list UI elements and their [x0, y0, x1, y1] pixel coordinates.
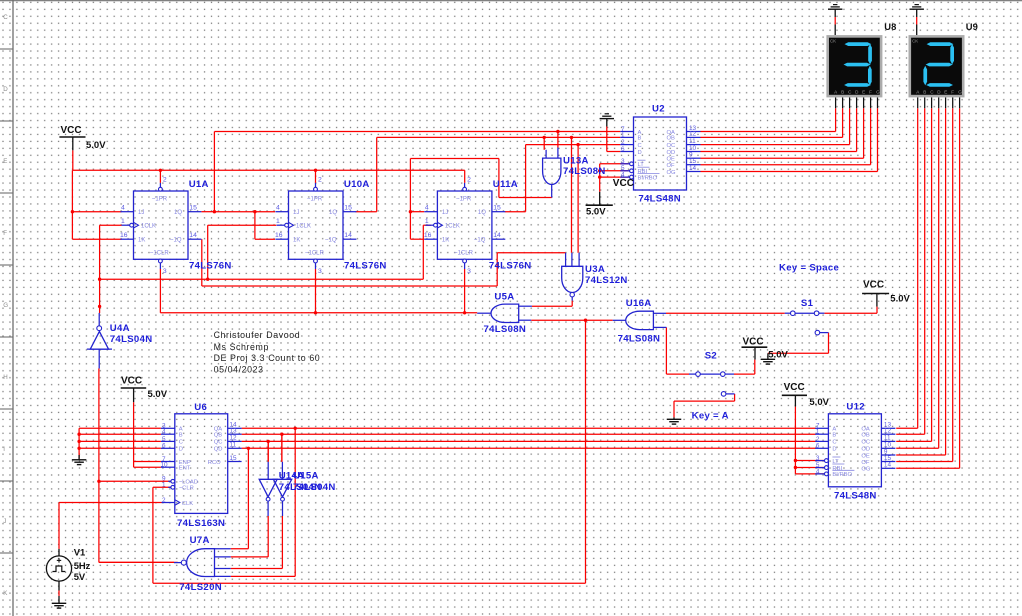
wire: U7A output to U4A input and U6 ~LOAD [99, 369, 178, 563]
svg-text:Ms Schremp: Ms Schremp [214, 342, 269, 352]
svg-text:2: 2 [467, 177, 471, 184]
U14A/U15A overlapping part labels 74LS04N [279, 482, 336, 493]
svg-text:E: E [944, 89, 947, 94]
svg-text:QD: QD [214, 447, 223, 453]
svg-text:F: F [869, 89, 872, 94]
svg-text:D: D [3, 86, 8, 93]
svg-text:1: 1 [162, 482, 166, 489]
svg-text:VCC: VCC [863, 280, 884, 291]
svg-text:16: 16 [275, 232, 283, 239]
svg-text:1Q: 1Q [329, 210, 337, 216]
junction QD tap to U7A [247, 447, 250, 450]
svg-text:I: I [3, 446, 5, 453]
svg-text:2: 2 [163, 177, 167, 184]
wire: U6 QA-QD bus to U12 inputs (tens BCD) [242, 428, 816, 576]
junction QA tap to U7A [294, 427, 297, 430]
svg-text:BI/RBO: BI/RBO [638, 175, 658, 181]
U12 pin numbers [816, 422, 892, 476]
svg-text:Key = Space: Key = Space [779, 262, 839, 273]
wire: VCC rail to U1A J/K and preset line (net VCC1) [72, 150, 464, 239]
U14A and U15A overlapping reference labels [279, 470, 319, 481]
svg-text:OC: OC [861, 440, 870, 446]
seven-segment display U9 (showing 2) [909, 35, 965, 97]
svg-text:1: 1 [276, 218, 280, 225]
svg-text:F: F [951, 89, 954, 94]
U9 reference label [966, 21, 978, 32]
svg-text:15: 15 [189, 205, 197, 212]
svg-text:C: C [3, 14, 8, 21]
svg-text:OC: OC [667, 143, 676, 149]
switch S2 (Key = A) SPDT [689, 372, 735, 396]
svg-text:B: B [923, 89, 926, 94]
U6 part label 74LS163N [177, 518, 225, 529]
U8 reference label [884, 21, 896, 32]
VCC symbol for S1 [862, 280, 910, 307]
svg-text:~CLR: ~CLR [179, 486, 194, 492]
svg-text:15: 15 [344, 205, 352, 212]
junction on preset line above U1A [159, 169, 162, 172]
svg-text:1J: 1J [293, 210, 299, 216]
junction feeding U3A right input [576, 143, 579, 146]
svg-text:5Hz: 5Hz [74, 560, 91, 571]
flip-flop U11A 74LS76N [424, 183, 505, 269]
wire: U12 segment outputs OA-OG to display U9 [896, 108, 959, 468]
svg-text:U5A: U5A [494, 292, 514, 303]
svg-text:5.0V: 5.0V [809, 397, 829, 408]
svg-text:74LS48N: 74LS48N [834, 491, 877, 502]
sheet border: left vertical rule with ticks and row letters [0, 0, 13, 616]
svg-text:G: G [876, 89, 880, 94]
svg-text:14: 14 [884, 462, 892, 469]
junction at U6 load tap [97, 480, 100, 483]
svg-text:U15A: U15A [293, 470, 319, 481]
svg-text:~1PR: ~1PR [456, 197, 472, 203]
svg-text:10: 10 [161, 462, 169, 469]
svg-text:74LS76N: 74LS76N [489, 261, 532, 272]
U1A pin numbers [120, 177, 197, 276]
svg-text:U7A: U7A [190, 535, 210, 546]
svg-text:1Q: 1Q [478, 210, 486, 216]
svg-text:U11A: U11A [493, 179, 518, 190]
wire: S2 throw to VCC [734, 360, 755, 375]
svg-text:~1PR: ~1PR [152, 197, 168, 203]
svg-text:4: 4 [816, 468, 820, 475]
svg-text:~1PR: ~1PR [307, 197, 323, 203]
svg-text:2: 2 [162, 497, 166, 504]
V1 value label 5Hz [74, 560, 91, 571]
annotation text block: author / teacher / project / date [214, 330, 321, 374]
svg-text:74LS163N: 74LS163N [177, 518, 225, 529]
svg-text:G: G [958, 89, 962, 94]
svg-text:CK: CK [830, 39, 836, 44]
svg-text:74LS08N: 74LS08N [484, 324, 527, 335]
S2 reference label [705, 351, 717, 362]
junction clock tee at U4A riser [98, 278, 101, 281]
svg-text:3: 3 [163, 268, 167, 275]
svg-text:1K: 1K [138, 238, 145, 244]
svg-text:~1Q: ~1Q [325, 238, 337, 244]
svg-text:VCC: VCC [743, 336, 764, 347]
junction QC tap to U14A [267, 440, 270, 443]
U13A reference label [563, 156, 589, 167]
svg-text:ENT: ENT [179, 466, 191, 472]
svg-text:5.0V: 5.0V [586, 207, 606, 218]
U11A part label 74LS76N [489, 261, 532, 272]
wire: display U8 pin leads [836, 97, 878, 108]
svg-text:U8: U8 [884, 21, 896, 32]
svg-text:74LS04N: 74LS04N [293, 482, 336, 493]
svg-text:U1A: U1A [189, 179, 209, 190]
BCD to 7-seg decoder U12 74LS48N [815, 414, 895, 487]
inverter U14A 74LS04N (points down) [259, 462, 277, 516]
svg-text:12: 12 [689, 131, 697, 138]
wire: manual reset line to U6 ~CLR [153, 487, 586, 583]
svg-text:F: F [3, 230, 7, 237]
U3A reference label [585, 264, 605, 275]
svg-text:RBI: RBI [638, 169, 648, 175]
svg-text:C: C [638, 143, 642, 149]
svg-text:74LS04N: 74LS04N [110, 334, 153, 345]
wire: ground to U2 pin D [607, 127, 621, 152]
U4A reference label [110, 323, 130, 334]
svg-text:6: 6 [816, 443, 820, 450]
svg-text:DE Proj 3.3 Count to 60: DE Proj 3.3 Count to 60 [214, 353, 321, 363]
svg-text:S1: S1 [801, 298, 814, 309]
wire: U3A output to U5A input 1 [532, 301, 572, 307]
wire: S1 lower throw to ground [768, 333, 829, 354]
svg-text:~1Q: ~1Q [474, 238, 486, 244]
svg-text:14: 14 [189, 232, 197, 239]
U4A part label 74LS04N [110, 334, 153, 345]
wire: U1A ~1Q to U3A left input [202, 239, 566, 286]
svg-text:74LS08N: 74LS08N [563, 166, 606, 177]
junction feeding U13A input B [556, 130, 559, 133]
svg-text:D: D [638, 150, 642, 156]
svg-text:J: J [3, 518, 6, 525]
U2 pin numbers [621, 125, 697, 179]
U5A reference label [494, 292, 514, 303]
svg-text:5.0V: 5.0V [86, 140, 106, 151]
U7A reference label [190, 535, 210, 546]
svg-text:74LS48N: 74LS48N [638, 193, 681, 204]
junction feeding U3A middle input [570, 136, 573, 139]
svg-text:4: 4 [121, 205, 125, 212]
U10A part label 74LS76N [344, 261, 387, 272]
svg-text:11: 11 [229, 442, 236, 449]
AND gate U13A 74LS08N (points down) [543, 148, 561, 198]
U6 pin numbers [161, 422, 237, 504]
svg-text:5.0V: 5.0V [148, 389, 168, 400]
sheet border: top edge line [0, 0, 1022, 2]
svg-text:VCC: VCC [61, 125, 82, 136]
wire: S2 lower throw to ground (Key = A) [674, 394, 735, 418]
svg-text:~1CLR: ~1CLR [305, 251, 325, 257]
svg-text:U4A: U4A [110, 323, 130, 334]
svg-text:QC: QC [214, 440, 223, 446]
U10A pin numbers [275, 177, 352, 276]
svg-text:Christoufer Davood: Christoufer Davood [214, 330, 301, 340]
wire: S1 throw to VCC [824, 307, 877, 314]
seven-segment display U8 (showing 3) [826, 35, 882, 97]
junction marker on U4A output riser [98, 305, 101, 308]
junction at U1A 1Q branch [213, 210, 216, 213]
svg-text:15: 15 [493, 205, 501, 212]
VCC symbol for U6 [121, 376, 168, 403]
svg-text:14: 14 [344, 232, 352, 239]
svg-text:2: 2 [318, 177, 322, 184]
VCC symbol top-left 5.0V [59, 125, 106, 151]
svg-text:3: 3 [318, 268, 322, 275]
svg-text:13: 13 [229, 428, 237, 435]
flip-flop U1A 74LS76N [120, 183, 201, 269]
svg-text:B: B [832, 433, 836, 439]
svg-text:74LS12N: 74LS12N [585, 275, 628, 286]
wire: display U9 pin leads [918, 97, 960, 108]
svg-text:6: 6 [621, 146, 625, 153]
ground for Key = A throw [667, 417, 682, 424]
svg-text:1Q: 1Q [174, 210, 182, 216]
svg-text:OD: OD [667, 150, 676, 156]
svg-text:74LS08N: 74LS08N [618, 333, 661, 344]
svg-text:1: 1 [621, 132, 625, 139]
svg-text:OF: OF [667, 163, 676, 169]
svg-text:E: E [3, 158, 7, 165]
svg-text:1: 1 [816, 429, 820, 436]
clock source V1 5Hz 5V [46, 549, 71, 581]
svg-text:D: D [179, 447, 183, 453]
svg-text:B: B [841, 89, 844, 94]
wire: inverter input risers from QB/QC lines [268, 434, 282, 462]
svg-text:OG: OG [861, 467, 871, 473]
svg-text:VCC: VCC [784, 382, 805, 393]
ground below V1 [52, 581, 67, 608]
VCC symbol near U2 (mirrored, bar below) [586, 178, 634, 217]
svg-text:~1Q: ~1Q [170, 238, 182, 244]
U1A part label 74LS76N [189, 261, 232, 272]
wire: U2 segment outputs OA-OG to display U8 [701, 108, 878, 171]
svg-text:74LS20N: 74LS20N [179, 582, 222, 593]
inverter U15A 74LS04N (points down) [273, 462, 291, 516]
svg-text:~1CLR: ~1CLR [454, 251, 474, 257]
junction ground bus D [77, 447, 80, 450]
AND gate U16A 74LS08N (points left) [613, 311, 667, 329]
U6 reference label [194, 402, 207, 413]
junction ground bus B [77, 433, 80, 436]
ground for U6 data inputs [72, 455, 87, 465]
svg-text:OD: OD [861, 447, 870, 453]
wire: U5A output to flip-flop clear line (~1CLR net) [160, 269, 477, 313]
svg-text:1K: 1K [442, 238, 449, 244]
svg-text:CLK: CLK [182, 501, 193, 507]
svg-text:4: 4 [276, 205, 280, 212]
svg-text:QB: QB [214, 433, 223, 439]
junction clock tap to U10A [206, 278, 209, 281]
svg-text:3: 3 [467, 268, 471, 275]
junction U12 RBI [794, 466, 797, 469]
S1 reference label [801, 298, 814, 309]
svg-text:B: B [179, 433, 183, 439]
svg-text:U9: U9 [966, 21, 978, 32]
U2 reference label [652, 104, 665, 115]
wire: S1 common to U16A input 1 [666, 312, 785, 314]
U5A part label 74LS08N [484, 324, 527, 335]
wire: U16A output to U5A input 2 with branch to U6 clear [531, 320, 613, 583]
wire: S2 common to U16A input 2 [666, 327, 689, 374]
wire: VCC riser to U2 LT/RBI/BI pins [600, 164, 629, 192]
U10A reference label [344, 179, 370, 190]
junction on preset line above U10A [314, 169, 317, 172]
svg-text:1CLK: 1CLK [445, 224, 460, 230]
svg-text:1J: 1J [442, 210, 448, 216]
svg-text:3: 3 [621, 158, 625, 165]
svg-text:RBI: RBI [832, 466, 842, 472]
svg-text:BI/RBO: BI/RBO [832, 472, 852, 478]
svg-text:5V: 5V [74, 571, 86, 582]
svg-text:U12: U12 [846, 402, 865, 413]
svg-text:H: H [3, 374, 7, 381]
svg-text:OB: OB [667, 136, 676, 142]
svg-text:15: 15 [229, 455, 237, 462]
svg-text:1: 1 [425, 218, 429, 225]
wire: U13A output to U11A 1J/1K [410, 159, 551, 240]
U16A reference label [626, 298, 652, 309]
svg-text:U16A: U16A [626, 298, 652, 309]
svg-text:U2: U2 [652, 104, 665, 115]
ground above display U8 [828, 5, 842, 35]
NAND gate U3A 74LS12N (points down, open-collector) [562, 253, 583, 301]
svg-text:U6: U6 [194, 402, 207, 413]
svg-text:4: 4 [425, 205, 429, 212]
svg-text:12: 12 [884, 428, 892, 435]
svg-text:S2: S2 [705, 351, 717, 362]
wire: VCC to U6 ENP and ENT [134, 402, 161, 467]
junction U2 RBI [598, 169, 601, 172]
wire: U7A input connections [231, 516, 296, 576]
svg-text:1J: 1J [138, 210, 144, 216]
svg-text:RCO: RCO [208, 460, 221, 466]
wire: U10A 1Q output line to U2 pin B (ones BCD bit 1) [356, 137, 621, 252]
ground feeding U2 pin D (inverted) [600, 114, 614, 127]
svg-text:1CLK: 1CLK [141, 224, 156, 230]
junction QB tap to U15A [280, 433, 283, 436]
svg-text:B: B [638, 136, 642, 142]
wire: clock distribution net from U4A output to all flip-flop clocks [100, 225, 431, 313]
junction feeding U13A input A [543, 136, 546, 139]
junction U2 BI/RBO [598, 175, 601, 178]
svg-text:C: C [179, 440, 183, 446]
wire: U11A 1Q output line to U2 pin C (ones BCD bit 2) [505, 145, 621, 253]
junction reset branch [584, 319, 587, 322]
U2 part label 74LS48N [638, 193, 681, 204]
svg-text:6: 6 [162, 443, 166, 450]
VCC symbol for U12 [782, 382, 830, 408]
svg-text:OG: OG [667, 170, 677, 176]
junction feeding U10A 1K [253, 210, 256, 213]
svg-text:C: C [832, 440, 836, 446]
svg-text:OE: OE [861, 453, 870, 459]
V1 reference label [74, 546, 85, 557]
svg-text:VCC: VCC [121, 376, 142, 387]
U7A part label 74LS20N [179, 582, 222, 593]
junction clear tap U11A [463, 311, 466, 314]
inverter U4A 74LS04N (points up) [87, 313, 112, 369]
S1 key label Key = Space [779, 262, 839, 273]
switch S1 (Key = Space) SPDT [785, 311, 829, 335]
flip-flop U10A 74LS76N [275, 183, 356, 269]
svg-text:4: 4 [162, 429, 166, 436]
svg-text:74LS76N: 74LS76N [344, 261, 387, 272]
junction at VCC corner feeding U1A 1J [71, 210, 74, 213]
U11A reference label [493, 179, 518, 190]
U1A reference label [189, 179, 209, 190]
wire: VCC riser to U12 LT/RBI/BI pins [795, 407, 824, 474]
svg-text:CK: CK [912, 39, 918, 44]
svg-text:OF: OF [861, 460, 870, 466]
counter U6 74LS163N [161, 414, 242, 514]
svg-text:U3A: U3A [585, 264, 605, 275]
wire: U1A 1Q output line to U2 pin A (ones BCD bit 0) [201, 132, 620, 240]
AND gate U5A 74LS08N (points left) [477, 304, 532, 322]
U3A part label 74LS12N [585, 275, 628, 286]
svg-text:1CLK: 1CLK [296, 224, 311, 230]
wire: U6 parallel data inputs A-D tied to ground [79, 428, 161, 458]
junction clear tap U10A [314, 311, 317, 314]
NAND gate U7A 74LS20N (4-input, points left) [99, 549, 231, 577]
ground above display U9 [910, 5, 924, 35]
ground for S1 lower throw [761, 353, 776, 364]
svg-text:VCC: VCC [613, 178, 634, 189]
svg-text:Key = A: Key = A [692, 410, 729, 421]
svg-text:E: E [862, 89, 865, 94]
svg-text:16: 16 [424, 232, 432, 239]
svg-text:14: 14 [689, 165, 697, 172]
U11A pin numbers [424, 177, 501, 276]
junction U12 LT [794, 459, 797, 462]
junction at U11A 1J tap [409, 210, 412, 213]
svg-text:U10A: U10A [344, 179, 370, 190]
svg-text:G: G [3, 302, 8, 309]
S2 key label Key = A [692, 410, 729, 421]
svg-text:1: 1 [121, 218, 125, 225]
svg-text:OB: OB [861, 433, 870, 439]
U12 part label 74LS48N [834, 491, 877, 502]
V1 value label 5V [74, 571, 86, 582]
svg-text:OE: OE [667, 157, 676, 163]
BCD to 7-seg decoder U2 74LS48N [620, 117, 700, 190]
VCC symbol for S2 [742, 336, 789, 360]
svg-text:74LS76N: 74LS76N [189, 261, 232, 272]
svg-text:16: 16 [120, 232, 128, 239]
svg-text:V1: V1 [74, 546, 85, 557]
U13A part label 74LS08N [563, 166, 606, 177]
svg-text:5.0V: 5.0V [890, 294, 910, 305]
svg-text:05/04/2023: 05/04/2023 [214, 364, 264, 374]
svg-text:1K: 1K [293, 238, 300, 244]
svg-text:3: 3 [816, 455, 820, 462]
svg-text:D: D [832, 447, 836, 453]
junction ground bus C [77, 440, 80, 443]
svg-text:~1CLR: ~1CLR [150, 251, 170, 257]
svg-text:14: 14 [493, 232, 501, 239]
U16A part label 74LS08N [618, 333, 661, 344]
wire: V1 clock source to U6 CLK [59, 503, 162, 549]
U12 reference label [846, 402, 865, 413]
